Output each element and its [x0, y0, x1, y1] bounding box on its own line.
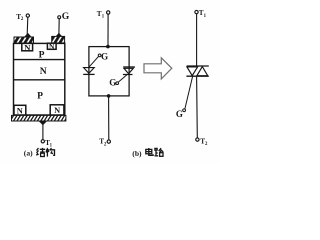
triac left triangle: [187, 67, 198, 76]
svg-text:G: G: [109, 77, 116, 87]
svg-text:N: N: [40, 66, 47, 77]
caption hanzi lu (路): [155, 148, 164, 156]
thyristor V1 cathode bar: [83, 73, 94, 75]
caption hanzi gou (构): [46, 148, 55, 157]
N well top-left: [22, 42, 33, 52]
N well top-right: [47, 42, 56, 51]
wire T2 lead: [26, 17, 29, 34]
terminal G circle: [58, 16, 61, 19]
triac bottom bar: [186, 75, 208, 77]
thyristor V2 anode bar: [123, 74, 133, 76]
svg-text:1: 1: [204, 14, 207, 19]
T1 solder wedge: [39, 121, 47, 125]
terminal T1 circle: [41, 140, 44, 143]
metal contact T2 (hatched): [14, 37, 34, 43]
junction node top: [106, 45, 110, 49]
terminal T1 circle: [195, 10, 198, 13]
thyristor V1 triangle: [84, 68, 95, 74]
svg-text:2: 2: [104, 142, 107, 147]
T2 solder wedge: [24, 33, 32, 37]
svg-text:P: P: [39, 49, 45, 60]
gate G2 circle: [116, 82, 119, 85]
triac right triangle: [197, 67, 208, 76]
junction node bottom: [107, 94, 111, 98]
thyristor V2 cathode bar: [123, 66, 135, 68]
metal contact T1 bottom bar (hatched): [12, 115, 66, 121]
terminal T2 circle: [26, 14, 29, 17]
svg-text:1: 1: [102, 15, 105, 20]
svg-text:N: N: [49, 42, 55, 51]
metal contact G (hatched): [52, 36, 65, 43]
terminal T2 circle: [196, 138, 199, 141]
N well bottom-right: [50, 105, 64, 115]
triac top bar: [187, 65, 209, 67]
wire T1 lead: [42, 124, 44, 140]
thyristor V2 triangle: [124, 68, 133, 73]
thyristor V1 gate lead: [89, 57, 99, 68]
wire G lead: [58, 19, 60, 34]
wire T1 to triac: [196, 14, 198, 66]
svg-text:N: N: [24, 42, 31, 52]
body outline: [14, 43, 65, 115]
caption hanzi jie (结): [36, 148, 45, 157]
loop wire rectangle: [89, 47, 129, 96]
svg-text:G: G: [176, 109, 183, 119]
svg-text:N: N: [54, 106, 60, 115]
wire T1 to loop: [107, 14, 109, 46]
wire triac to T2: [196, 76, 199, 138]
wire loop to T2: [108, 96, 110, 140]
G solder wedge: [55, 33, 62, 37]
junction line N/P: [14, 79, 65, 81]
terminal T2 circle: [107, 140, 110, 143]
N well bottom-left: [14, 105, 26, 115]
thyristor V2 gate lead: [119, 75, 127, 82]
svg-text:N: N: [17, 106, 23, 115]
gate G1 circle: [98, 54, 101, 57]
svg-text:P: P: [37, 90, 43, 101]
svg-text:2: 2: [21, 17, 24, 22]
svg-text:2: 2: [205, 142, 208, 147]
gate G circle: [183, 109, 186, 112]
svg-text:G: G: [101, 51, 108, 61]
gate lead: [185, 76, 193, 108]
svg-text:G: G: [62, 11, 70, 22]
terminal T1 circle: [107, 11, 110, 14]
arrow: [144, 58, 172, 79]
junction line P/N: [14, 59, 65, 61]
svg-text:(b): (b): [132, 149, 142, 158]
caption hanzi dian (电): [146, 148, 153, 155]
svg-text:(a): (a): [24, 149, 33, 158]
